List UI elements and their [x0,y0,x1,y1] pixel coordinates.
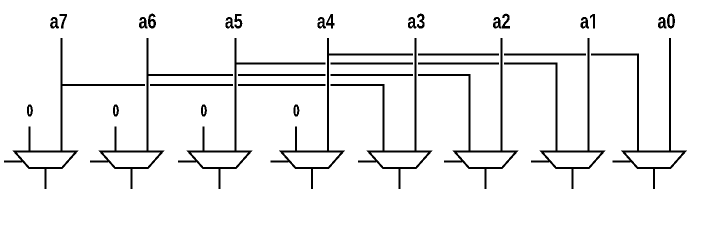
mux U4 select stub [271,161,289,163]
wire a7 vertical [61,38,63,152]
wire a1 vertical [588,38,590,152]
mux U4 (2-to-1 mux under a4) [281,152,343,169]
constant 0 label (mux U4) [293,104,299,116]
mux U1 output wire [572,168,574,189]
wire 0 stub into mux U5 left input [203,127,205,152]
input label a3 [408,14,425,29]
wire a4 vertical [327,38,329,152]
mux U2 output wire [485,168,487,189]
constant 0 label (mux U7) [27,104,33,116]
mux U2 (2-to-1 mux under a2) [455,152,517,169]
constant 0 label (mux U6) [113,104,119,116]
wire a7 horizontal branch (y=85.0) [61,84,326,86]
mux U3 (2-to-1 mux under a3) [369,152,431,169]
wire a4 branch corner and down-leg into mux of a0 [591,55,638,152]
input label a4 [317,14,334,29]
wire a4 horizontal branch (y=54.5) [327,54,586,56]
wire a6 horizontal branch (y=75.0) [147,74,414,76]
mux U4 output wire [311,168,313,189]
mux U0 select stub [613,161,631,163]
mux U7 select stub [4,161,22,163]
input label a2 [493,14,510,29]
mux U0 (2-to-1 mux under a0) [623,152,685,169]
input label a6 [139,14,156,29]
constant 0 label (mux U5) [201,104,207,116]
wire a5 vertical [235,38,237,152]
wire 0 stub into mux U7 left input [29,127,31,152]
wire a5 branch corner and down-leg into mux of a1 [504,64,557,152]
wire 0 stub into mux U4 left input [295,127,297,152]
wire a6 branch corner and down-leg into mux of a2 [418,75,470,152]
mux U6 (2-to-1 mux under a6) [101,152,163,169]
mux U5 output wire [219,168,221,189]
input label a0 [658,14,675,29]
mux U3 select stub [358,161,376,163]
mux U2 select stub [444,161,462,163]
mux U5 select stub [178,161,196,163]
mux U1 (2-to-1 mux under a1) [542,152,604,169]
wire 0 stub into mux U6 left input [115,127,117,152]
mux U3 output wire [399,168,401,189]
input label a1 [580,14,595,29]
mux U5 (2-to-1 mux under a5) [189,152,251,169]
mux U1 select stub [531,161,549,163]
wire a0 vertical [669,38,671,152]
wire a6 vertical [147,38,149,152]
wire a7 branch corner and down-leg into mux of a3 [331,85,384,152]
mux U6 output wire [131,168,133,189]
wire a2 vertical [501,38,503,152]
mux U7 output wire [45,168,47,189]
mux U6 select stub [90,161,108,163]
mux U0 output wire [653,168,655,189]
wire a3 vertical [415,38,417,152]
wire a5 horizontal branch (y=63.5) [235,63,500,65]
mux U7 (2-to-1 mux under a7) [15,152,77,169]
input label a5 [225,14,242,29]
input label a7 [50,14,67,29]
